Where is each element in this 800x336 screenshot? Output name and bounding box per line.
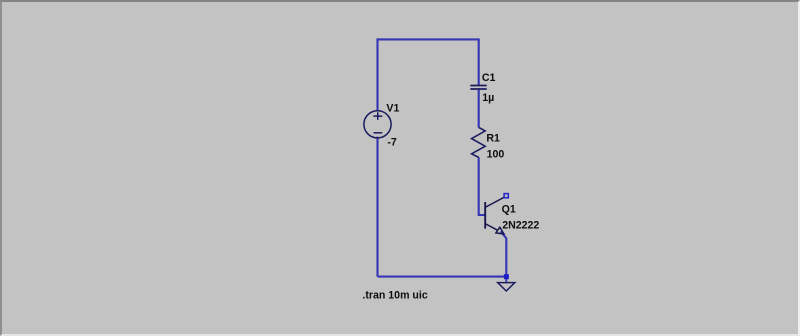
svg-text:C1: C1 [482, 72, 496, 84]
transistor Q1 collector open pin square [504, 194, 508, 198]
svg-text:100: 100 [487, 149, 505, 161]
transistor Q1 collector line [485, 197, 504, 207]
transistor Q1 base bar [484, 202, 486, 229]
wire left column upper (top rail to V1) [376, 38, 378, 111]
wire left column lower (V1 to bottom rail) [376, 137, 378, 277]
svg-text:.tran 10m uic: .tran 10m uic [362, 290, 427, 302]
voltage source V1 plus sign [373, 112, 382, 120]
svg-text:Q1: Q1 [502, 204, 516, 216]
voltage source V1 minus sign [374, 132, 383, 134]
wire bottom rail [378, 276, 507, 278]
wire Q1 emitter to ground junction [501, 231, 507, 276]
capacitor C1 bottom plate [470, 88, 486, 90]
capacitor C1 top plate [470, 85, 486, 87]
wire ground stub [505, 277, 507, 283]
svg-text:R1: R1 [486, 133, 500, 145]
voltage source V1 circle [364, 111, 391, 138]
svg-text:V1: V1 [386, 103, 399, 115]
wire top rail [378, 38, 479, 40]
resistor R1 zigzag [472, 127, 486, 157]
node junction at ground [504, 274, 509, 279]
wire R1 to Q1 base [479, 157, 485, 215]
transistor Q1 emitter line [485, 224, 497, 231]
transistor Q1 emitter arrowhead [496, 227, 504, 234]
svg-text:-7: -7 [387, 137, 397, 149]
ground symbol [498, 283, 515, 291]
wire right column (top rail to C1) [478, 38, 480, 85]
wire C1 to R1 [478, 89, 480, 128]
svg-text:2N2222: 2N2222 [502, 220, 539, 232]
svg-text:1µ: 1µ [482, 92, 494, 104]
